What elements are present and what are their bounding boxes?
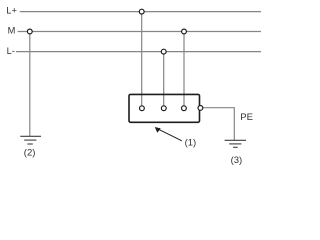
svg-text:L-: L-	[7, 46, 15, 56]
terminal 2 circle in box	[161, 106, 166, 111]
wire L+ bus line	[20, 11, 261, 13]
node circle on L+	[139, 9, 144, 14]
wire L+ drop to box	[141, 14, 143, 105]
ground (2)	[20, 136, 41, 144]
ground (3) PE	[225, 140, 246, 147]
wire M bus line	[18, 31, 261, 33]
svg-text:(1): (1)	[185, 138, 197, 149]
svg-text:(2): (2)	[24, 148, 36, 159]
svg-text:L+: L+	[6, 5, 17, 15]
svg-text:M: M	[8, 25, 16, 35]
wire M drop to ground	[29, 34, 31, 136]
wire PE from box to ground	[203, 108, 234, 140]
terminal 3 circle in box	[182, 106, 187, 111]
arrow pointer to box	[159, 129, 182, 141]
svg-text:PE: PE	[240, 112, 253, 123]
node circle on L-	[161, 49, 166, 54]
box U1	[129, 94, 200, 122]
node circle on M left	[27, 29, 32, 34]
wire L- drop to box	[163, 54, 165, 105]
node circle on M right	[182, 29, 187, 34]
wire L- bus line	[16, 51, 261, 53]
svg-text:(3): (3)	[231, 155, 243, 166]
terminal 1 circle in box	[140, 106, 145, 111]
terminal 4 circle on box edge	[198, 106, 203, 111]
wire M drop to box	[183, 34, 185, 105]
